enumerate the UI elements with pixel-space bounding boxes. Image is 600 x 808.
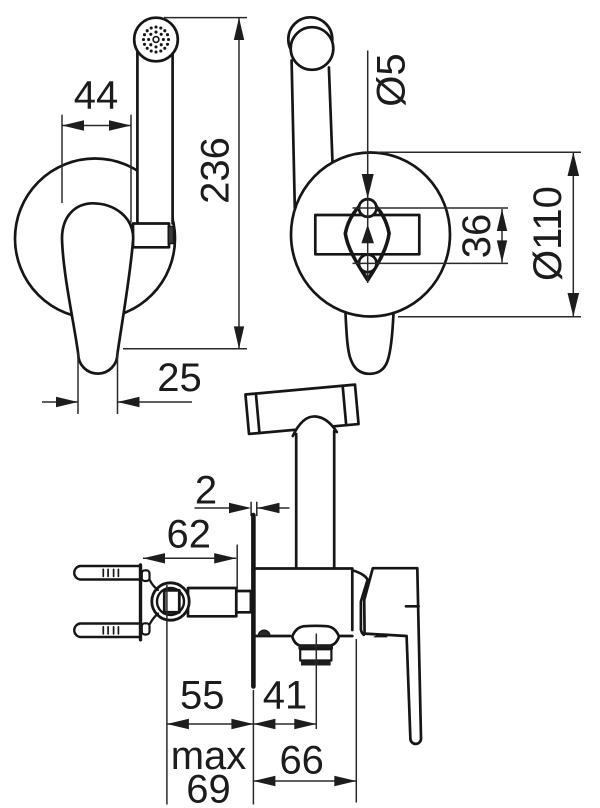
wall plate top edges (250, 502, 252, 515)
bracket tab top (142, 570, 150, 581)
holder clip (dark) (168, 227, 173, 244)
spray face nozzle dots (142, 25, 170, 53)
lever escutcheon and blade (side) (364, 568, 421, 744)
dim 25 extension lines (77, 352, 79, 414)
diamond centre arrow (361, 225, 374, 244)
dim 236 reference top (164, 17, 247, 19)
dim 62 line (143, 557, 236, 559)
bracket tab bottom (142, 623, 150, 634)
svg-text:236: 236 (194, 137, 238, 204)
svg-text:36: 36 (455, 214, 499, 259)
mounting bracket plate (139, 565, 142, 640)
leader line Ø5 / centre axis (367, 51, 369, 284)
valve spindle diamond (345, 200, 389, 281)
dim 36 line (501, 209, 503, 262)
escutcheon bottom mark (374, 634, 387, 637)
aerator top band (dark) (298, 644, 333, 649)
spray handle body (front) (137, 52, 172, 224)
dim 2 lines (195, 507, 231, 509)
svg-text:41: 41 (263, 674, 308, 718)
36 arrows (497, 209, 507, 231)
svg-text:69: 69 (186, 768, 231, 808)
41 arrows (253, 719, 275, 729)
svg-text:25: 25 (157, 356, 202, 400)
svg-text:66: 66 (279, 739, 324, 783)
dim Ø110 reference lines (378, 151, 581, 153)
blade notch line (406, 605, 419, 608)
dim 236 line (238, 18, 240, 349)
hose tube (side) (295, 434, 298, 567)
spray head rim (rear view) (288, 17, 332, 61)
mixer body (side view) (256, 569, 352, 631)
dim 236 reference bottom (123, 348, 247, 350)
dim 66 line (253, 780, 356, 782)
svg-text:2: 2 (195, 469, 217, 513)
wall plate (thick) (251, 515, 256, 687)
concealed body step (236, 591, 251, 612)
inlet connection inner circle (157, 588, 184, 615)
svg-text:62: 62 (167, 513, 212, 557)
dim Ø110 line (572, 152, 574, 317)
screw hole top (crosshair circle) (359, 199, 377, 217)
dim 36 reference lines (353, 207, 509, 209)
bracket-to-nut connectors (150, 580, 159, 591)
inlet connection nut (outer circle) (152, 583, 189, 620)
inlet pipe top threads (103, 569, 118, 576)
236 arrows (234, 18, 244, 40)
2 arrows (229, 503, 251, 513)
dimension texts (74, 53, 570, 808)
inlet pipe bottom (74, 624, 139, 638)
lever tip below rosette (rear view) (346, 313, 394, 374)
55 arrows (167, 719, 189, 729)
svg-text:Ø5: Ø5 (370, 53, 414, 106)
dim 41 line (253, 723, 316, 725)
concealed body behind wall (188, 588, 236, 616)
svg-text:44: 44 (74, 74, 119, 118)
dim 44 line (62, 125, 131, 127)
spout bell (side) (292, 626, 339, 646)
66 arrows (253, 776, 275, 786)
extension: body right down (355, 639, 357, 803)
aerator body (300, 649, 331, 660)
wall rosette circle (front view) (15, 159, 175, 319)
44 arrows (62, 120, 84, 130)
cartridge neck (side) (353, 571, 368, 635)
extension: wall line down (252, 690, 254, 805)
aerator bottom band (dark) (301, 661, 331, 666)
spray head face circle (rear view) (291, 27, 334, 70)
mixer lever (front view, teardrop) (62, 203, 133, 373)
dim 44 extension lines (61, 115, 63, 203)
mounting plate rectangle (rear) (315, 215, 419, 254)
25 arrows (56, 397, 78, 407)
Ø5 leader arrow (362, 174, 374, 199)
Ø110 arrows (568, 152, 580, 176)
underside bump (258, 630, 270, 636)
dim 25 lines (42, 401, 78, 403)
inlet pipe top (74, 566, 139, 580)
rosette circle (rear view) (291, 153, 450, 317)
spray head (side view, tilted) (245, 385, 358, 434)
extension: nut centre down (166, 585, 168, 805)
spray holder bracket (front) (133, 224, 169, 248)
spray neck dome (side) (293, 416, 337, 436)
spray head (front view) (134, 18, 178, 62)
square socket (164, 590, 179, 612)
svg-text:Ø110: Ø110 (526, 186, 570, 281)
dim 62 extension (236, 545, 238, 590)
svg-text:55: 55 (180, 674, 225, 718)
inlet pipe bottom threads (103, 627, 118, 634)
62 arrows (143, 553, 165, 563)
spray handle tube (rear) (292, 61, 295, 209)
extension: spout centre (315, 634, 317, 730)
dim 55 line (167, 723, 254, 725)
screw hole bottom (crosshair circle) (359, 255, 377, 273)
